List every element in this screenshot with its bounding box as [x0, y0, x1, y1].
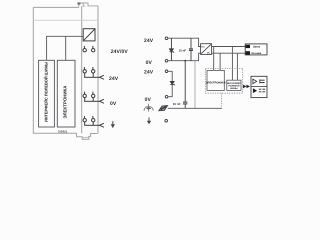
module top latch — [78, 2, 99, 7]
wire row B to fork — [84, 73, 104, 79]
terminal 0V supply — [165, 59, 168, 62]
wire 0V rail to earth line — [194, 61, 196, 108]
svg-text:24V: 24V — [144, 70, 154, 76]
dashed wire earth to electronics — [221, 93, 223, 108]
terminal 24V supply — [165, 37, 168, 40]
wire row D to fork — [84, 122, 104, 127]
svg-text:24V/0V: 24V/0V — [111, 49, 129, 55]
wire DC/DC output minus — [212, 52, 245, 54]
power jumper contact row D left — [83, 116, 86, 122]
svg-text:0V: 0V — [146, 60, 153, 66]
wire 24V rail — [168, 38, 201, 46]
capacitor C2 10nF (0V to earth) — [183, 61, 187, 109]
power jumper contact row A right — [92, 46, 95, 52]
suppressor diode V1 — [170, 38, 175, 61]
power jumper contact row A left — [83, 46, 86, 52]
power jumper contact row B left — [83, 67, 86, 73]
earth rail arrow down (module) — [111, 121, 115, 128]
svg-text:ШИНЫ: ШИНЫ — [230, 87, 238, 90]
svg-text:DC: DC — [207, 52, 211, 55]
junction dot 0V rail — [184, 60, 186, 62]
fieldbus connector box — [251, 76, 267, 97]
fieldbus interface box — [39, 60, 55, 127]
power jumper contact row C right — [92, 92, 95, 98]
connector icon lower — [253, 88, 265, 93]
dashed isolation boundary — [205, 68, 242, 93]
electronics box — [57, 60, 75, 127]
DIN rail contact symbol — [159, 106, 168, 111]
svg-text:ПОЛЕВОЙ: ПОЛЕВОЙ — [228, 84, 239, 87]
earth arrow down (schematic) — [147, 118, 151, 125]
power jumper contact row B right — [92, 67, 95, 73]
wire suppressor to field 0V — [168, 84, 172, 96]
svg-text:Шина: Шина — [253, 46, 261, 49]
system bus box — [245, 44, 267, 55]
wire field 24V to suppressor — [168, 71, 172, 81]
arrow to fieldbus connector — [243, 85, 250, 89]
svg-text:0V: 0V — [110, 101, 117, 107]
electronics block — [206, 70, 226, 90]
svg-text:ИНТЕРФЕЙС: ИНТЕРФЕЙС — [227, 82, 241, 85]
wire row C to fork — [84, 98, 104, 104]
power jumper contact row D right — [92, 116, 95, 122]
svg-text:ЭЛЕКТРОНИКА: ЭЛЕКТРОНИКА — [62, 85, 67, 119]
module outline — [33, 6, 98, 134]
svg-text:750651: 750651 — [58, 130, 68, 134]
rail earth symbol (circle-arc) — [144, 104, 153, 112]
svg-text:24V: 24V — [144, 38, 154, 44]
svg-text:ИНТЕРФЕЙС ПОЛЕВОЙ ШИНЫ: ИНТЕРФЕЙС ПОЛЕВОЙ ШИНЫ — [44, 62, 49, 122]
svg-text:10 nF: 10 nF — [173, 102, 181, 106]
wire DC/DC output plus — [212, 46, 245, 48]
wire drop to fieldbus block (plus) — [231, 47, 233, 81]
wire from interface box to data contact — [47, 36, 84, 60]
svg-text:Эл-ника: Эл-ника — [251, 52, 262, 55]
module DIN rail foot — [77, 133, 98, 139]
terminal 0V field — [165, 95, 168, 98]
wire stem electronics box — [65, 36, 67, 60]
wire drop to electronics block (minus) — [219, 53, 221, 70]
wire 0V rail — [168, 53, 201, 61]
svg-text:DC: DC — [201, 45, 205, 48]
wire drop to electronics block (plus) — [213, 47, 215, 71]
data contact symbol (square with diagonal) — [83, 29, 95, 41]
terminal 24V field — [165, 70, 168, 73]
fieldbus interface block — [227, 80, 241, 90]
suppressor diode V2 — [170, 81, 175, 85]
svg-text:24V: 24V — [109, 76, 119, 82]
svg-text:ЭЛЕКТРОНИКА: ЭЛЕКТРОНИКА — [206, 82, 226, 85]
capacitor C1 10nF — [189, 38, 193, 61]
svg-text:0V: 0V — [145, 97, 152, 103]
power jumper contact row C left — [83, 92, 86, 98]
svg-text:10 nF: 10 nF — [179, 49, 187, 53]
connector icon upper — [253, 79, 265, 84]
DC/DC converter U1 — [201, 44, 212, 55]
earth wire — [168, 107, 222, 109]
wire drop to fieldbus block (minus) — [236, 53, 238, 80]
terminal earth — [165, 119, 168, 122]
